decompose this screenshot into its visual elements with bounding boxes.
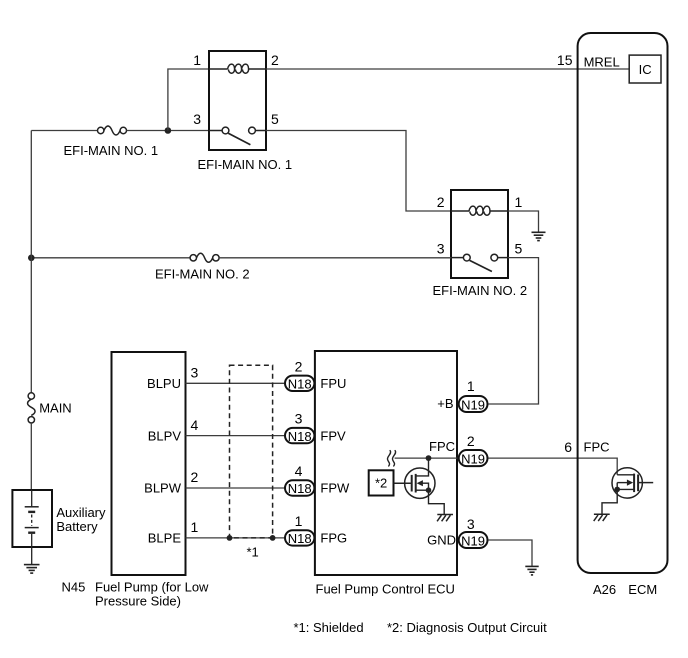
svg-text:GND: GND	[427, 532, 456, 547]
connector N18 (FPG)	[285, 530, 314, 545]
svg-text:N45: N45	[62, 580, 86, 595]
svg-text:2: 2	[467, 433, 475, 449]
svg-text:3: 3	[191, 365, 199, 381]
fuse EFI-MAIN NO. 1	[98, 126, 127, 135]
svg-text:*1: Shielded: *1: Shielded	[294, 620, 364, 635]
wire: link to battery	[30, 423, 32, 490]
svg-text:1: 1	[295, 513, 303, 529]
svg-text:1: 1	[467, 378, 475, 394]
svg-text:BLPW: BLPW	[144, 481, 182, 496]
svg-text:2: 2	[295, 358, 303, 374]
svg-text:5: 5	[515, 240, 523, 256]
wire: FPC inside ECM to transistor	[578, 458, 618, 475]
svg-text:1: 1	[515, 194, 523, 210]
svg-text:*2: Diagnosis Output Circuit: *2: Diagnosis Output Circuit	[387, 620, 547, 635]
svg-text:N18: N18	[288, 377, 312, 392]
svg-text:2: 2	[437, 194, 445, 210]
wire: left rail vertical	[30, 131, 32, 393]
svg-text:4: 4	[191, 417, 199, 433]
svg-text:2: 2	[271, 52, 279, 68]
svg-text:EFI-MAIN NO. 2: EFI-MAIN NO. 2	[155, 267, 250, 282]
svg-text:15: 15	[557, 52, 573, 68]
connector N18 (FPV)	[285, 428, 314, 443]
svg-text:Battery: Battery	[56, 519, 98, 534]
svg-text:IC: IC	[639, 62, 652, 77]
Fuel Pump Control ECU box	[315, 351, 457, 575]
svg-text:N19: N19	[461, 398, 485, 413]
connector N19 (GND)	[459, 532, 488, 548]
svg-text:Auxiliary: Auxiliary	[56, 505, 106, 520]
svg-text:EFI-MAIN NO. 1: EFI-MAIN NO. 1	[64, 143, 159, 158]
svg-text:6: 6	[564, 439, 572, 455]
svg-text:EFI-MAIN NO. 1: EFI-MAIN NO. 1	[198, 157, 293, 172]
fusible link MAIN	[28, 393, 36, 423]
wire break squiggle	[387, 451, 395, 466]
node: junction fuse1/relay coil branch	[165, 127, 172, 134]
wire: EFI-MAIN NO.2 feed	[31, 257, 190, 259]
svg-text:1: 1	[191, 519, 199, 535]
ground: relay2 coil (earth)	[532, 232, 546, 240]
ground: GND N19 (earth)	[525, 566, 538, 575]
svg-text:FPV: FPV	[320, 428, 346, 443]
svg-text:FPW: FPW	[320, 481, 350, 496]
wire: relay1 pin2 to ECM pin15 (MREL)	[266, 68, 629, 70]
wire: BLPU to N18	[186, 382, 285, 384]
svg-text:*2: *2	[375, 476, 387, 491]
wire: branch up to relay1 pin1	[168, 69, 209, 131]
relay2 coil	[451, 206, 508, 215]
ground: Q1 source (chassis)	[437, 515, 453, 522]
node: FPC junction	[426, 455, 432, 461]
svg-text:BLPV: BLPV	[148, 428, 182, 443]
relay2 switch contacts	[451, 254, 508, 271]
wire: BLPV to N18	[186, 435, 285, 437]
svg-text:FPG: FPG	[320, 531, 347, 546]
battery box (Auxiliary Battery)	[12, 490, 52, 547]
battery cell symbol	[25, 490, 39, 564]
svg-text:ECM: ECM	[628, 582, 657, 597]
wire: battery feed top horizontal	[31, 130, 97, 132]
node: shield tie right	[270, 535, 276, 541]
wire: FPC to ECM pin 6	[489, 457, 578, 459]
wire: BLPE to N18	[186, 537, 285, 539]
diagnosis box *2	[369, 470, 394, 495]
svg-text:1: 1	[193, 52, 201, 68]
svg-text:FPC: FPC	[584, 439, 610, 454]
svg-text:Fuel Pump Control ECU: Fuel Pump Control ECU	[316, 582, 455, 597]
connector N19 (FPC)	[459, 450, 488, 466]
svg-text:A26: A26	[593, 582, 616, 597]
svg-text:MREL: MREL	[584, 55, 620, 70]
wire: GND to ground	[489, 540, 533, 566]
wire: relay1 pin5 to relay2 pin2	[266, 131, 451, 212]
connector N18 (FPU)	[285, 376, 314, 391]
wire: relay2 pin5 down to +B	[489, 258, 539, 404]
connector N18 (FPW)	[285, 480, 314, 495]
relay EFI-MAIN NO. 1 box	[209, 51, 266, 150]
svg-text:MAIN: MAIN	[39, 401, 71, 416]
svg-text:3: 3	[295, 411, 303, 427]
IC box	[629, 55, 661, 83]
svg-text:3: 3	[437, 240, 445, 256]
relay1 switch contacts	[209, 127, 266, 145]
svg-text:+B: +B	[437, 396, 453, 411]
ECM box	[578, 33, 668, 573]
node: junction on left rail at EFI-MAIN NO.2	[28, 254, 35, 261]
svg-text:4: 4	[295, 463, 303, 479]
svg-text:Fuel Pump (for Low: Fuel Pump (for Low	[95, 580, 209, 595]
wire: BLPW to N18	[186, 487, 285, 489]
svg-text:3: 3	[193, 111, 201, 127]
svg-text:3: 3	[467, 516, 475, 532]
fuse EFI-MAIN NO. 2	[190, 253, 219, 262]
svg-text:BLPU: BLPU	[147, 376, 181, 391]
svg-text:5: 5	[271, 111, 279, 127]
svg-text:N19: N19	[461, 534, 485, 549]
svg-text:*1: *1	[247, 545, 259, 560]
svg-text:2: 2	[191, 469, 199, 485]
svg-text:N18: N18	[288, 429, 312, 444]
shield dashed box *1	[230, 365, 273, 538]
transistor Q2 (ECM MOSFET)	[602, 468, 653, 514]
node: Q1 source tie	[426, 487, 432, 493]
connector N19 (+B)	[459, 396, 488, 412]
svg-text:Pressure Side): Pressure Side)	[95, 594, 181, 609]
node: Q2 source tie	[614, 487, 620, 493]
svg-text:EFI-MAIN NO. 2: EFI-MAIN NO. 2	[433, 283, 528, 298]
relay1 coil	[209, 64, 266, 73]
svg-text:FPU: FPU	[320, 376, 346, 391]
wire: relay2 pin1 to ground	[508, 211, 539, 232]
node: shield tie left	[227, 535, 233, 541]
svg-text:N18: N18	[288, 531, 312, 546]
svg-text:FPC: FPC	[429, 439, 455, 454]
wire: fuse2 to relay2 pin3	[219, 257, 451, 259]
svg-text:N18: N18	[288, 481, 312, 496]
fuel pump box N45	[112, 352, 186, 575]
svg-text:N19: N19	[461, 452, 485, 467]
ground: battery (earth)	[24, 565, 40, 574]
ground: Q2 source (chassis)	[594, 514, 610, 521]
transistor Q1 (ECU MOSFET)	[394, 458, 445, 514]
wire: fuse1 to relay1 pin3	[127, 130, 210, 132]
relay EFI-MAIN NO. 2 box	[451, 190, 508, 278]
wire: ECU FPC internal branch	[395, 457, 458, 459]
svg-text:BLPE: BLPE	[148, 531, 182, 546]
